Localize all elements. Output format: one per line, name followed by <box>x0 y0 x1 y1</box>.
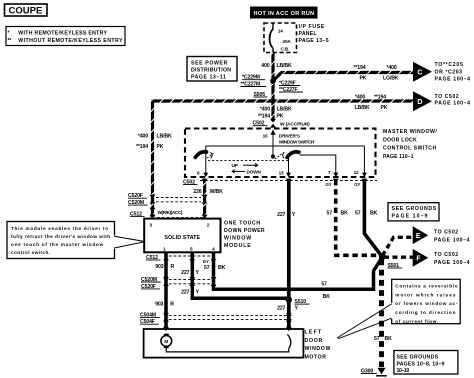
label *400 LB/BK **194 PK on bus D <box>355 95 388 111</box>
label *400 LB/BK **194 PK left drop <box>136 133 172 150</box>
connector C229F/C227F <box>279 80 303 93</box>
svg-text:LG/BK: LG/BK <box>383 75 399 81</box>
svg-text:WINDOW SWITCH: WINDOW SWITCH <box>279 139 315 144</box>
wire pin3 entry arrow <box>150 215 156 219</box>
label 227 Y second <box>181 289 199 295</box>
wire dashed to arrow E <box>383 237 414 255</box>
svg-text:BK: BK <box>385 336 393 342</box>
svg-text:227: 227 <box>181 270 189 276</box>
label ONE TOUCH DOWN POWER WINDOW MODULE <box>224 221 265 250</box>
svg-text:57: 57 <box>355 211 361 217</box>
svg-text:SOLID STATE: SOLID STATE <box>164 235 200 241</box>
label 227 Y pin13 <box>277 212 296 218</box>
svg-text:DISTRIBUTION: DISTRIBUTION <box>191 67 231 73</box>
svg-text:cording to direction: cording to direction <box>395 310 455 315</box>
wire 226 W/BK <box>202 179 208 219</box>
label DRIVER'S WINDOW SWITCH <box>279 133 315 144</box>
switch assembly dashed box <box>185 129 376 178</box>
svg-text:903: 903 <box>155 264 163 270</box>
node junction bus D <box>270 98 276 104</box>
off-page arrow F <box>413 249 429 267</box>
label TO C205/C203 <box>435 62 471 82</box>
svg-text:PANEL: PANEL <box>299 31 318 37</box>
fuse panel dashed box <box>264 23 297 53</box>
svg-text:PAGE 10–9: PAGE 10–9 <box>392 213 428 219</box>
wire 400 LB/BK fuse drop <box>271 53 274 122</box>
svg-text:20A: 20A <box>283 39 292 44</box>
svg-text:LB/BK: LB/BK <box>157 133 173 139</box>
wiper travel dashes right <box>275 153 284 159</box>
wire 57 BK solid from pin 12 <box>361 179 381 257</box>
svg-text:SEE POWER: SEE POWER <box>191 60 228 66</box>
svg-text:UP: UP <box>232 163 238 168</box>
wire to pin 13 <box>286 157 291 177</box>
label 903 R second <box>155 301 174 307</box>
svg-text:BK: BK <box>341 211 349 217</box>
connector C229M/C227M <box>241 75 267 88</box>
off-page arrow E <box>413 226 429 244</box>
svg-text:12: 12 <box>354 170 359 175</box>
wire bus C <box>273 73 413 82</box>
node S510 <box>286 297 310 306</box>
svg-text:of current flow.: of current flow. <box>395 319 438 324</box>
svg-text:ONE TOUCH: ONE TOUCH <box>224 221 260 227</box>
svg-text:DOWN: DOWN <box>247 170 262 175</box>
svg-text:14: 14 <box>278 28 283 33</box>
wire motor internal <box>166 348 288 352</box>
label 226 W/BK <box>193 189 223 195</box>
svg-text:W(R/K)(ACC): W(R/K)(ACC) <box>158 210 183 215</box>
svg-text:LB/BK: LB/BK <box>277 63 293 69</box>
wire to pin 7 <box>300 155 339 177</box>
svg-text:HOT IN ACC OR RUN: HOT IN ACC OR RUN <box>254 11 315 17</box>
svg-text:226: 226 <box>193 189 201 195</box>
wire 57 BK dashed from pin 7 <box>333 179 380 256</box>
svg-text:R: R <box>170 301 174 307</box>
svg-text:SEE GROUNDS: SEE GROUNDS <box>392 206 437 212</box>
callout note box module description <box>7 222 144 259</box>
svg-text:M: M <box>164 339 168 344</box>
note box SEE GROUNDS PAGES <box>394 351 458 375</box>
wire 227 Y pin5 <box>192 252 288 298</box>
svg-text:This module enables the driver: This module enables the driver to <box>11 226 108 231</box>
connector C512 upper <box>130 208 203 218</box>
svg-text:PAGE 100–4: PAGE 100–4 <box>434 260 470 266</box>
svg-text:BK: BK <box>323 294 331 300</box>
svg-text:GY: GY <box>326 182 332 187</box>
svg-text:fully retract the driver's win: fully retract the driver's window with <box>11 234 110 239</box>
svg-text:10: 10 <box>263 134 268 139</box>
svg-text:PAGE 13–5: PAGE 13–5 <box>299 38 329 44</box>
svg-text:903: 903 <box>155 301 163 307</box>
pin 10 feed line <box>263 130 276 159</box>
label *400 LB/BK **194 PK center drop <box>258 106 292 119</box>
svg-text:LEFT: LEFT <box>305 330 322 336</box>
svg-text:*400: *400 <box>387 65 397 71</box>
svg-text:400: 400 <box>261 63 269 69</box>
svg-text:227: 227 <box>181 289 189 295</box>
svg-text:*400: *400 <box>260 106 270 112</box>
wire 57 BK dashed to ground <box>379 260 384 368</box>
contact arc left <box>210 152 212 158</box>
node S505 label <box>254 92 268 98</box>
svg-text:MODULE: MODULE <box>224 243 251 249</box>
label TO C502 arrow F <box>434 252 470 266</box>
label 227 Y below S510 <box>277 306 298 312</box>
switch wiper left <box>195 152 206 158</box>
label 57 BK pin4 <box>204 265 226 271</box>
svg-text:57: 57 <box>374 336 380 342</box>
module U1 one touch down power window module <box>144 219 220 253</box>
svg-text:PK: PK <box>277 113 284 119</box>
svg-text:DRIVER'S: DRIVER'S <box>279 133 300 138</box>
svg-text:PK: PK <box>381 105 388 111</box>
svg-text:WITH REMOTE/KEYLESS ENTRY: WITH REMOTE/KEYLESS ENTRY <box>18 30 107 36</box>
svg-text:GY: GY <box>203 259 209 264</box>
svg-text:TO C502: TO C502 <box>434 252 458 258</box>
connector C512 lower <box>146 252 217 261</box>
svg-text:CONTROL SWITCH: CONTROL SWITCH <box>383 146 436 152</box>
svg-text:**194: **194 <box>354 65 366 71</box>
label 57 BK pin7 <box>327 211 349 217</box>
wiper travel dashes left <box>207 153 214 158</box>
contact arc right <box>283 152 285 158</box>
svg-text:TO C502: TO C502 <box>435 94 459 100</box>
mechanical link dashed <box>208 160 288 162</box>
svg-text:10–10: 10–10 <box>397 368 410 374</box>
label I/P fuse panel <box>299 24 329 44</box>
svg-text:BK: BK <box>370 211 378 217</box>
svg-text:SEE GROUNDS: SEE GROUNDS <box>397 354 439 360</box>
svg-text:GY: GY <box>354 182 360 187</box>
motor box left door window motor <box>144 329 304 358</box>
svg-text:LB/BK: LB/BK <box>355 105 371 111</box>
svg-text:C.B.: C.B. <box>281 46 290 51</box>
wire dashed to arrow F <box>384 256 413 259</box>
svg-text:PK: PK <box>360 75 367 81</box>
switch wiper right <box>287 152 299 158</box>
svg-text:W/BK: W/BK <box>210 189 224 195</box>
svg-text:motor which raises: motor which raises <box>395 292 456 297</box>
svg-text:WITHOUT REMOTE/KEYLESS ENTRY: WITHOUT REMOTE/KEYLESS ENTRY <box>18 38 123 44</box>
svg-text:one touch of the master window: one touch of the master window <box>11 242 104 247</box>
contact arc motor <box>287 334 290 349</box>
node S501 <box>379 253 402 269</box>
connector C502 top <box>253 119 277 128</box>
label 57 BK horizontal <box>321 281 330 300</box>
svg-text:PAGE 100–4: PAGE 100–4 <box>435 76 471 82</box>
label TO C502 arrow E <box>434 229 470 243</box>
svg-text:WINDOW: WINDOW <box>224 236 251 242</box>
svg-text:PK: PK <box>157 144 164 150</box>
note box contains reversible motor <box>337 279 460 339</box>
svg-text:PAGE 100–4: PAGE 100–4 <box>435 101 471 107</box>
svg-text:*400: *400 <box>355 95 365 101</box>
label 227 Y pin5 <box>181 270 199 276</box>
svg-text:57: 57 <box>321 281 327 287</box>
off-page arrow D <box>413 91 432 111</box>
wire 903 R pin1 <box>164 252 168 328</box>
power tag HOT IN ACC OR RUN <box>250 7 318 19</box>
svg-text:I/P FUSE: I/P FUSE <box>299 24 325 30</box>
label DOWN arrow <box>231 169 261 174</box>
wire to pin 12 <box>362 146 367 177</box>
svg-text:**194: **194 <box>136 144 148 150</box>
svg-text:MASTER WINDOW/: MASTER WINDOW/ <box>383 129 437 135</box>
svg-text:F: F <box>416 256 421 263</box>
legend box remote/keyless entry <box>6 27 125 46</box>
svg-text:TO C502: TO C502 <box>434 229 458 235</box>
svg-text:C: C <box>417 68 422 77</box>
svg-text:COUPE: COUPE <box>9 5 43 16</box>
svg-text:227: 227 <box>277 212 285 218</box>
svg-text:**194: **194 <box>374 95 386 101</box>
motor M1 <box>161 334 172 348</box>
svg-text:control switch.: control switch. <box>11 250 50 255</box>
ground G300 <box>361 368 387 376</box>
svg-text:TO**C205: TO**C205 <box>435 62 463 68</box>
svg-text:LB/BK: LB/BK <box>277 106 293 112</box>
svg-text:13: 13 <box>279 171 284 176</box>
wire pin1 entry arrow into motor <box>163 327 169 331</box>
label TO C502 <box>435 94 471 107</box>
svg-text:or lowers window ac-: or lowers window ac- <box>395 301 458 306</box>
node S505 junction upper <box>270 78 276 84</box>
wire 57 BK pin4 <box>214 252 383 289</box>
label 903 R <box>155 264 174 270</box>
svg-text:227: 227 <box>277 306 285 312</box>
svg-text:DOOR: DOOR <box>305 338 323 344</box>
svg-text:BK: BK <box>218 265 226 271</box>
label 57 BK pin12 <box>355 211 378 217</box>
svg-text:PAGES 10–8, 10–9: PAGES 10–8, 10–9 <box>397 361 445 367</box>
svg-text:PAGE 100–4: PAGE 100–4 <box>434 237 470 243</box>
svg-text:R: R <box>171 264 175 270</box>
svg-text:57: 57 <box>204 265 210 271</box>
svg-text:PAGE 110–1: PAGE 110–1 <box>383 154 414 160</box>
svg-text:DOWN POWER: DOWN POWER <box>224 228 265 234</box>
svg-text:OR *C203: OR *C203 <box>435 69 463 75</box>
connector C502 under switch <box>183 179 377 185</box>
svg-text:**194: **194 <box>258 113 270 119</box>
wire 227 Y from pin 13 <box>286 179 292 332</box>
note box SEE POWER DISTRIBUTION <box>187 57 237 82</box>
svg-text:*400: *400 <box>138 133 148 139</box>
svg-text:57: 57 <box>327 211 333 217</box>
wire bus D with left drop <box>153 101 414 216</box>
title box COUPE <box>5 4 48 16</box>
circuit breaker 14 20A <box>270 23 292 53</box>
svg-text:W (ACC/RUN): W (ACC/RUN) <box>280 122 310 127</box>
svg-text:DOOR LOCK: DOOR LOCK <box>383 137 417 143</box>
wire to pin 6 <box>203 146 208 177</box>
connector C520M/C520F lower <box>141 277 217 290</box>
label 57 BK ground <box>374 336 392 342</box>
connector C520F/C520M upper <box>128 193 208 206</box>
svg-text:Contains a reversible: Contains a reversible <box>395 283 458 288</box>
svg-text:E: E <box>416 233 421 240</box>
label **194 PK / *400 LG/BK on bus C <box>354 65 399 82</box>
label MASTER WINDOW/DOOR LOCK CONTROL SWITCH <box>383 129 437 160</box>
svg-text:MOTOR: MOTOR <box>305 354 327 360</box>
svg-text:D: D <box>417 97 422 106</box>
wire switch top rail <box>206 145 365 147</box>
label UP arrow <box>232 163 259 168</box>
label LEFT DOOR WINDOW MOTOR <box>305 330 331 361</box>
svg-text:PAGE 13–11: PAGE 13–11 <box>191 74 226 80</box>
svg-text:WINDOW: WINDOW <box>305 346 331 352</box>
label 400 LB/BK <box>261 63 292 69</box>
off-page arrow C <box>413 62 432 82</box>
connector C504M/C504F <box>140 312 294 325</box>
note box SEE GROUNDS PAGE 10-9 <box>388 203 439 221</box>
